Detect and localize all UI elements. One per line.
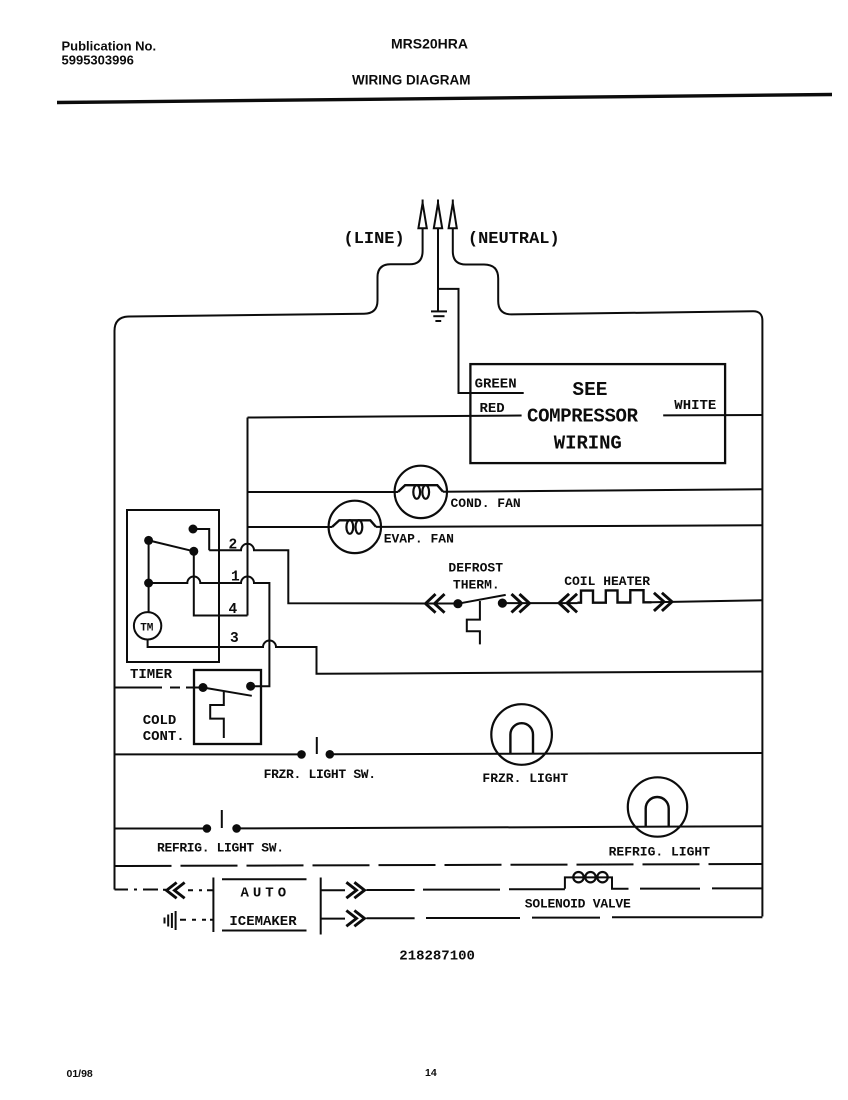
header rule <box>57 95 832 103</box>
svg-text:ICEMAKER: ICEMAKER <box>229 914 297 930</box>
svg-text:Publication No.: Publication No. <box>62 39 157 54</box>
svg-text:COLD: COLD <box>143 713 177 729</box>
wire: WHITE lead to right edge <box>663 414 762 416</box>
cold control box <box>194 670 261 744</box>
svg-text:FRZR. LIGHT: FRZR. LIGHT <box>482 771 568 786</box>
wire: refrigerator light row <box>115 828 207 830</box>
solenoid valve coil <box>565 872 629 889</box>
timer terminal node to contact 2 <box>189 525 198 534</box>
cold control right node <box>246 682 255 691</box>
label AUTO ICEMAKER <box>229 886 297 931</box>
wire: freezer light row <box>115 753 302 755</box>
wire: row 2 to right edge (dashed) <box>366 917 762 918</box>
defrost thermostat arm <box>458 595 506 604</box>
svg-text:THERM.: THERM. <box>453 578 500 593</box>
timer motor TM <box>134 612 161 639</box>
wire: green branch from ground stem to compressor box <box>438 289 524 393</box>
svg-text:TM: TM <box>140 622 154 634</box>
svg-text:01/98: 01/98 <box>67 1068 93 1080</box>
water inlet symbol <box>165 911 176 930</box>
svg-text:GREEN: GREEN <box>475 376 517 392</box>
wire: RED lead <box>248 416 522 418</box>
connector chevrons (left of coil heater) <box>559 595 576 612</box>
cold control switch arm <box>203 688 252 696</box>
wire: coil heater to right edge <box>652 600 763 602</box>
svg-text:218287100: 218287100 <box>399 949 475 965</box>
timer common node <box>144 536 153 545</box>
svg-text:REFRIG. LIGHT: REFRIG. LIGHT <box>609 845 711 860</box>
timer switch arm <box>149 540 194 551</box>
lamp FRZR. LIGHT <box>491 704 552 765</box>
lamp REFRIG. LIGHT <box>628 777 687 836</box>
motor EVAP. FAN <box>329 501 381 553</box>
svg-text:SOLENOID VALVE: SOLENOID VALVE <box>525 897 631 912</box>
header: publication number text <box>62 39 157 68</box>
plug prong center (ground) <box>434 200 442 229</box>
connector chevrons (right of thermostat) <box>513 595 530 612</box>
defrost thermostat node left <box>453 599 462 608</box>
svg-text:WIRING: WIRING <box>554 433 622 455</box>
svg-text:COMPRESSOR: COMPRESSOR <box>527 406 639 428</box>
svg-text:COND. FAN: COND. FAN <box>451 496 521 511</box>
wire: contact 4 drop and row 4 <box>194 551 248 615</box>
defrost thermostat bellows <box>467 601 480 644</box>
svg-text:RED: RED <box>480 401 505 417</box>
svg-text:MRS20HRA: MRS20HRA <box>391 36 468 52</box>
connector chevrons out 2 <box>348 911 365 925</box>
motor COND. FAN <box>395 466 447 518</box>
wire: into defrost thermostat <box>429 603 458 605</box>
wire: common vertical to timer motor <box>148 540 150 612</box>
svg-text:(LINE): (LINE) <box>344 230 405 249</box>
coil heater element <box>578 590 652 603</box>
connector chevrons out 1 <box>348 883 365 897</box>
wire: icemaker out row 1 <box>321 889 345 891</box>
cold control bellows element <box>210 692 224 738</box>
wire: lower rail (dashed) <box>115 864 763 866</box>
timer arm contact node <box>189 547 198 556</box>
svg-text:WHITE: WHITE <box>674 398 716 414</box>
svg-text:4: 4 <box>229 602 238 618</box>
wire: left supply bus vertical <box>247 418 249 616</box>
compressor box SEE COMPRESSOR WIRING <box>470 364 725 463</box>
connector chevrons (right of coil heater) <box>655 594 672 610</box>
wire: ground stem <box>437 228 439 310</box>
svg-text:FRZR. LIGHT SW.: FRZR. LIGHT SW. <box>264 767 377 782</box>
wire: NEUTRAL prong to main box top-right edge, down right edge <box>453 228 763 916</box>
svg-text:5995303996: 5995303996 <box>62 53 134 68</box>
svg-text:EVAP. FAN: EVAP. FAN <box>384 532 454 547</box>
wire: condenser fan row <box>248 491 399 493</box>
plug prong NEUTRAL <box>449 200 457 229</box>
label SEE COMPRESSOR WIRING <box>527 379 639 455</box>
wire: to solenoid (dashed) <box>366 888 565 891</box>
label COLD CONT. <box>143 713 185 745</box>
svg-text:SEE: SEE <box>572 379 607 401</box>
wire: solenoid to right edge (dashed) <box>640 887 762 889</box>
wire: terminal to row 2 <box>193 529 209 550</box>
wire: icemaker feed row dash-dot from left edge <box>115 889 167 891</box>
switch FRZR. LIGHT SW. <box>297 737 334 759</box>
ground symbol <box>431 311 447 321</box>
svg-text:WIRING DIAGRAM: WIRING DIAGRAM <box>352 73 471 88</box>
wire: row 2 with hop over bus, to defrost row <box>209 544 429 604</box>
wire: dash to icemaker box <box>188 889 213 891</box>
timer box <box>127 510 219 662</box>
connector chevrons to icemaker (left) <box>167 883 184 897</box>
cold control left node <box>199 683 208 692</box>
wire: evaporator fan row <box>248 526 333 528</box>
svg-text:3: 3 <box>230 631 239 647</box>
svg-text:CONT.: CONT. <box>143 729 185 745</box>
defrost thermostat node right <box>498 599 507 608</box>
icemaker box AUTO ICEMAKER <box>213 878 320 935</box>
svg-text:(NEUTRAL): (NEUTRAL) <box>468 230 560 249</box>
wire: LINE prong to main box top-left edge <box>115 228 423 889</box>
svg-text:14: 14 <box>425 1067 437 1079</box>
timer node contact 1 <box>144 579 153 588</box>
switch REFRIG. LIGHT SW. <box>203 810 241 833</box>
label DEFROST THERM. <box>448 561 503 593</box>
wire: row 1 with hops, down to cold control <box>149 577 270 687</box>
svg-text:COIL HEATER: COIL HEATER <box>564 574 650 589</box>
svg-text:REFRIG. LIGHT SW.: REFRIG. LIGHT SW. <box>157 841 284 856</box>
plug prong LINE <box>418 200 426 229</box>
svg-text:DEFROST: DEFROST <box>448 561 503 576</box>
defrost row: connector chevron left <box>426 595 444 612</box>
wire: row 3 from timer motor with hop, to lower rail <box>148 640 763 674</box>
wire: thermostat to coil heater <box>502 602 577 604</box>
wire: left edge to cold control (dash-dot) <box>115 687 204 689</box>
wire: dash from water symbol to icemaker box <box>180 919 213 921</box>
svg-text:TIMER: TIMER <box>130 667 173 683</box>
svg-text:AUTO: AUTO <box>241 886 291 902</box>
wire: icemaker out row 2 <box>321 918 345 920</box>
